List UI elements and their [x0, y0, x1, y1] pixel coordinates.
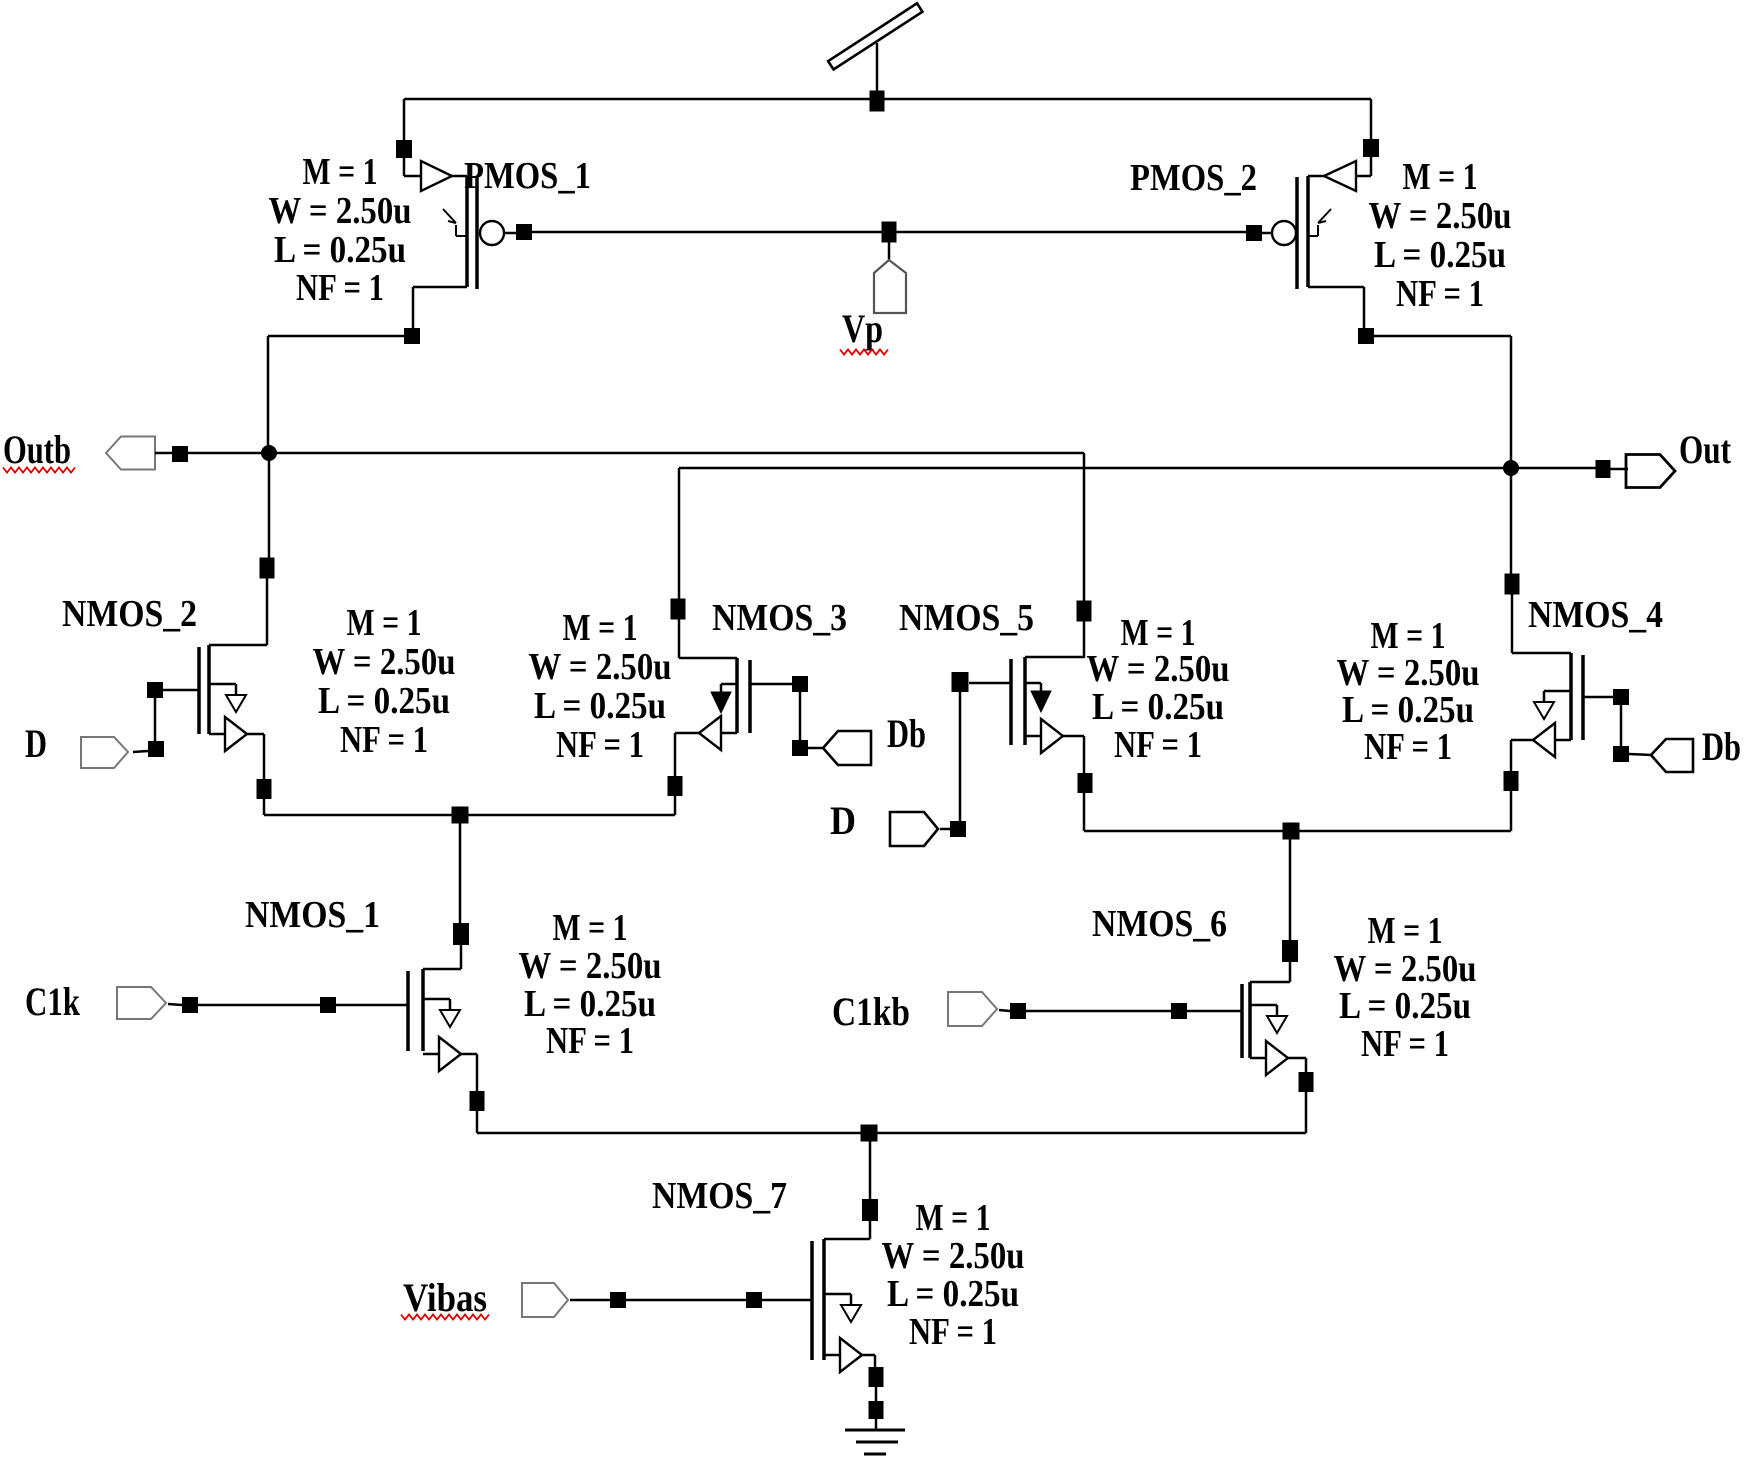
svg-text:L = 0.25u: L = 0.25u	[887, 1273, 1019, 1315]
svg-text:L = 0.25u: L = 0.25u	[1092, 686, 1224, 728]
svg-text:NF = 1: NF = 1	[296, 267, 384, 309]
svg-text:M = 1: M = 1	[563, 607, 638, 649]
svg-text:L = 0.25u: L = 0.25u	[524, 983, 656, 1025]
svg-text:W = 2.50u: W = 2.50u	[1087, 648, 1230, 690]
svg-text:M = 1: M = 1	[1368, 910, 1443, 952]
svg-text:NF = 1: NF = 1	[1361, 1023, 1449, 1065]
svg-text:W = 2.50u: W = 2.50u	[529, 646, 672, 688]
svg-text:PMOS_1: PMOS_1	[464, 155, 591, 197]
svg-text:NF = 1: NF = 1	[1114, 724, 1202, 766]
svg-text:NF = 1: NF = 1	[1364, 726, 1452, 768]
svg-text:NF = 1: NF = 1	[340, 719, 428, 761]
svg-text:D: D	[830, 798, 856, 843]
svg-text:NMOS_1: NMOS_1	[245, 894, 380, 936]
svg-text:Outb: Outb	[3, 427, 71, 472]
svg-text:L = 0.25u: L = 0.25u	[1374, 234, 1506, 276]
svg-text:NMOS_6: NMOS_6	[1092, 903, 1227, 945]
svg-text:W = 2.50u: W = 2.50u	[1334, 948, 1477, 990]
svg-text:Out: Out	[1679, 427, 1732, 472]
svg-text:Db: Db	[887, 711, 926, 756]
svg-text:M = 1: M = 1	[1403, 156, 1478, 198]
svg-text:W = 2.50u: W = 2.50u	[313, 641, 456, 683]
svg-text:NF = 1: NF = 1	[546, 1020, 634, 1062]
svg-text:W = 2.50u: W = 2.50u	[1369, 195, 1512, 237]
svg-text:W = 2.50u: W = 2.50u	[882, 1235, 1025, 1277]
svg-text:W = 2.50u: W = 2.50u	[519, 945, 662, 987]
svg-text:NF = 1: NF = 1	[909, 1311, 997, 1353]
svg-text:M = 1: M = 1	[553, 907, 628, 949]
svg-text:D: D	[25, 721, 47, 766]
svg-text:L = 0.25u: L = 0.25u	[318, 680, 450, 722]
svg-text:M = 1: M = 1	[347, 602, 422, 644]
svg-text:NMOS_2: NMOS_2	[62, 593, 197, 635]
svg-text:NMOS_5: NMOS_5	[899, 597, 1034, 639]
svg-text:L = 0.25u: L = 0.25u	[1342, 689, 1474, 731]
svg-text:Vibas: Vibas	[403, 1275, 487, 1320]
svg-text:PMOS_2: PMOS_2	[1130, 157, 1257, 199]
svg-text:M = 1: M = 1	[303, 151, 378, 193]
svg-text:L = 0.25u: L = 0.25u	[1339, 985, 1471, 1027]
svg-text:Vp: Vp	[842, 306, 883, 351]
svg-text:NMOS_7: NMOS_7	[652, 1175, 787, 1217]
svg-text:Db: Db	[1702, 724, 1741, 769]
svg-text:W = 2.50u: W = 2.50u	[269, 190, 412, 232]
svg-text:M = 1: M = 1	[1371, 615, 1446, 657]
svg-text:NMOS_4: NMOS_4	[1528, 594, 1663, 636]
svg-text:L = 0.25u: L = 0.25u	[274, 229, 406, 271]
svg-text:NMOS_3: NMOS_3	[712, 597, 847, 639]
svg-text:M = 1: M = 1	[916, 1197, 991, 1239]
svg-text:W = 2.50u: W = 2.50u	[1337, 652, 1480, 694]
svg-text:L = 0.25u: L = 0.25u	[534, 685, 666, 727]
svg-text:C1kb: C1kb	[832, 989, 910, 1034]
svg-text:C1k: C1k	[25, 979, 81, 1024]
svg-text:NF = 1: NF = 1	[1396, 273, 1484, 315]
svg-text:NF = 1: NF = 1	[556, 724, 644, 766]
